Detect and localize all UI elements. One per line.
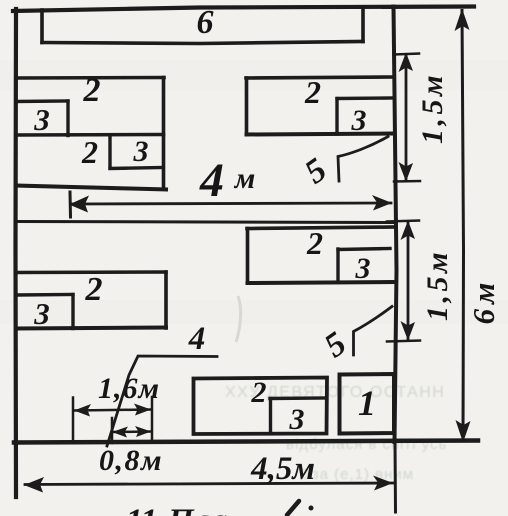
svg-text:3: 3 [351, 104, 367, 137]
svg-text:6: 6 [197, 4, 214, 41]
svg-text:План: План [167, 503, 245, 516]
svg-text:4,5м: 4,5м [250, 451, 315, 487]
left upper rack 2 top edge [16, 76, 164, 80]
shelf 6 bottom edge [42, 42, 363, 44]
bleed-through smudge [236, 296, 241, 342]
dimension 0,8m arrowheads [112, 427, 128, 438]
mid right rack 2 left edge [246, 229, 250, 284]
dimension 1,5m lower arrowheads [401, 221, 416, 241]
left lower box 3 bottom edge [110, 168, 163, 169]
svg-text:2: 2 [85, 271, 103, 308]
top right box 3 top edge [337, 96, 393, 100]
svg-text:4: 4 [188, 321, 206, 357]
svg-text:2: 2 [306, 225, 323, 261]
dimension 4m right arrowhead [372, 195, 392, 211]
mid right box 3 top edge [338, 249, 390, 250]
svg-text:0,8м: 0,8м [99, 444, 163, 477]
left wall [13, 9, 18, 497]
mid left rack 2 bottom edge [16, 328, 166, 329]
left upper box 3 right edge [66, 101, 69, 136]
dimension 4m left arrowhead [69, 196, 89, 213]
left lower rack 2 bottom edge [16, 186, 166, 190]
dimension 1,6m right tick [151, 397, 154, 441]
svg-text:4: 4 [199, 154, 224, 207]
right wall lower extension [394, 442, 398, 512]
svg-text:2: 2 [83, 72, 101, 109]
mid partition wall [16, 222, 396, 223]
svg-text:3: 3 [133, 135, 149, 168]
top right box 3 left edge [335, 99, 338, 135]
svg-text:6м: 6м [466, 278, 501, 325]
svg-text:3: 3 [289, 403, 305, 436]
dimension 1,5m upper tick top [394, 54, 419, 55]
svg-text:3: 3 [33, 296, 50, 331]
shelf 6 left edge [40, 10, 44, 43]
caption stroke fragment [287, 501, 299, 515]
svg-text:11.: 11. [126, 503, 165, 516]
mid right box 3 left edge [336, 249, 339, 283]
dimension 4,5m line [25, 483, 393, 485]
dimension 4,5m right arrowhead [373, 476, 393, 491]
dimension 1,5m lower tick top [387, 221, 419, 222]
bottom rack 2 rectangle [194, 378, 328, 435]
left upper rack 2 right edge [162, 78, 166, 189]
bottom box 3 left edge [269, 399, 272, 434]
top wall [13, 7, 474, 12]
mid right rack 2 bottom edge [248, 282, 396, 283]
mid left rack 2 top edge [16, 270, 166, 274]
dimension 0,8m line [113, 430, 150, 433]
dimension 1,6m left tick [72, 398, 75, 442]
svg-text:1: 1 [358, 383, 376, 423]
top right rack 2 top edge [246, 77, 393, 78]
mid left rack 2 right edge [164, 272, 168, 328]
leader line 5 top [338, 137, 388, 182]
top right rack 2 left edge [245, 78, 249, 134]
dimension 6m arrowheads [455, 9, 470, 32]
svg-text:1,5м: 1,5м [421, 249, 454, 321]
dimension 1,6m arrowheads [74, 404, 91, 417]
dimension 4,5m left arrowhead [24, 477, 44, 493]
dimension 1,5m upper tick bottom [394, 180, 420, 183]
svg-text:3: 3 [33, 102, 50, 137]
bottom wall [14, 441, 478, 443]
svg-text:Эза (е,1) вним: Эза (е,1) вним [300, 466, 414, 483]
dimension 4m left tick [69, 192, 73, 217]
svg-text:2: 2 [251, 376, 267, 409]
dimension 1,5m upper line [405, 55, 408, 180]
left rack divider edge [16, 133, 164, 137]
dimension 1,5m lower tick bottom [387, 341, 420, 342]
mid left box 3 right edge [71, 295, 74, 329]
svg-text:м: м [233, 162, 256, 195]
svg-text:2: 2 [81, 134, 98, 170]
dimension 1,5m upper arrowheads [399, 53, 414, 73]
dimension 1,5m lower line [407, 222, 410, 339]
dimension 4m line [72, 203, 391, 204]
right wall [394, 7, 397, 443]
dimension 0,8m left tick [111, 418, 114, 443]
caption dot [309, 506, 314, 511]
top right rack 2 bottom edge [247, 134, 394, 135]
shelf 6 right edge [361, 7, 365, 42]
leader line 5 mid [354, 307, 393, 356]
svg-text:2: 2 [304, 74, 321, 110]
box 1 rectangle [340, 374, 395, 434]
dimension 1,6m line [75, 410, 150, 411]
mid left box 3 top edge [17, 293, 73, 297]
dimension 6m line [462, 11, 464, 442]
bottom box 3 top edge [270, 396, 327, 400]
leader line 4 [107, 356, 217, 446]
svg-text:3: 3 [355, 252, 371, 285]
svg-text:1,5м: 1,5м [416, 72, 449, 144]
mid right rack 2 top edge [247, 227, 394, 229]
left upper box 3 top edge [16, 99, 68, 103]
left lower box 3 left edge [108, 135, 111, 168]
